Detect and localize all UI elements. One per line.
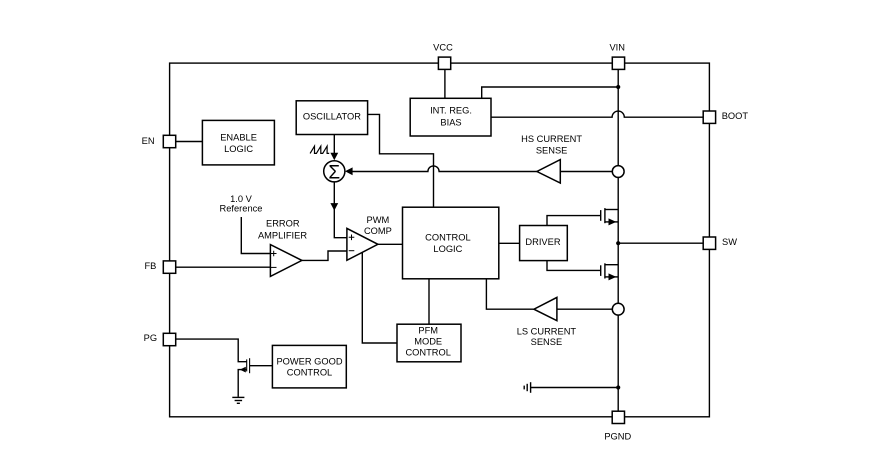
svg-text:OSCILLATOR: OSCILLATOR <box>303 112 361 122</box>
svg-text:Σ: Σ <box>328 162 340 183</box>
svg-text:LOGIC: LOGIC <box>224 144 253 154</box>
svg-text:CONTROL: CONTROL <box>405 348 450 358</box>
svg-text:SENSE: SENSE <box>536 145 568 155</box>
svg-text:LOGIC: LOGIC <box>433 244 462 254</box>
svg-text:CONTROL: CONTROL <box>287 368 332 378</box>
svg-text:LS CURRENT: LS CURRENT <box>517 326 577 336</box>
svg-text:VIN: VIN <box>609 42 625 52</box>
svg-text:HS CURRENT: HS CURRENT <box>521 134 582 144</box>
svg-text:MODE: MODE <box>414 337 442 347</box>
svg-text:Reference: Reference <box>220 204 263 214</box>
svg-text:AMPLIFIER: AMPLIFIER <box>258 231 307 241</box>
svg-text:ENABLE: ENABLE <box>220 133 257 143</box>
svg-text:INT. REG.: INT. REG. <box>430 106 472 116</box>
svg-text:CONTROL: CONTROL <box>425 232 470 242</box>
svg-text:1.0 V: 1.0 V <box>230 194 253 204</box>
svg-text:FB: FB <box>145 261 157 271</box>
svg-text:BOOT: BOOT <box>722 111 749 121</box>
svg-text:DRIVER: DRIVER <box>525 237 560 247</box>
svg-text:SENSE: SENSE <box>531 337 563 347</box>
svg-text:PWM: PWM <box>367 215 390 225</box>
svg-text:EN: EN <box>142 136 155 146</box>
svg-text:POWER GOOD: POWER GOOD <box>276 356 342 366</box>
svg-text:ERROR: ERROR <box>266 219 300 229</box>
svg-text:SW: SW <box>722 237 737 247</box>
svg-text:COMP: COMP <box>364 226 392 236</box>
svg-text:PGND: PGND <box>604 431 631 441</box>
svg-text:PFM: PFM <box>418 325 438 335</box>
svg-text:PG: PG <box>144 333 157 343</box>
svg-text:VCC: VCC <box>433 42 453 52</box>
svg-text:BIAS: BIAS <box>440 117 461 127</box>
